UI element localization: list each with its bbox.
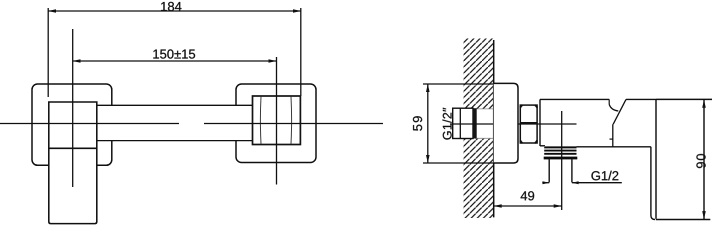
valve body top edge (right of notch): [626, 98, 656, 100]
hex nut chamfer top-left: [520, 105, 522, 108]
dimension 184 left arrow: [48, 9, 56, 13]
outlet stub left edge: [548, 159, 550, 182]
wall hatch: [463, 39, 493, 219]
cartridge dome arc: [609, 105, 618, 112]
dimension 184 text: [161, 2, 181, 11]
handle grip right edge / dimension 90 line: [703, 99, 705, 219]
dimension 49 right arrow: [554, 204, 562, 208]
dimension 59 bottom arrow: [426, 155, 430, 163]
dimension 150±15 line: [73, 60, 277, 62]
handle grip left edge: [655, 99, 657, 218]
handle grip bottom edge / 90 extension: [656, 219, 710, 221]
lever neck tick: [610, 138, 614, 140]
dimension 90 text (rotated): [696, 154, 705, 168]
handle grip second left line with foot curve: [651, 147, 655, 220]
G1/2 diameter dim left line: [542, 182, 549, 184]
extension line left of 184: [47, 8, 49, 97]
side-view centreline: [450, 123, 577, 125]
outlet thread block: [544, 146, 576, 159]
hex nut chamfer bottom-left: [520, 141, 522, 144]
horizontal centreline (left segment): [0, 123, 179, 125]
dimension 184 line: [48, 10, 301, 12]
dimension 59 top arrow: [426, 84, 430, 92]
right connector knob (thick rect): [253, 96, 301, 145]
outlet centreline: [561, 111, 563, 210]
pipe through wall top edge: [475, 108, 494, 110]
dimension 90 bottom arrow: [702, 211, 706, 219]
G1/2 diameter dim right arrow: [572, 181, 579, 184]
spout bar bottom edge: [97, 140, 253, 142]
handle front view (covers escutcheon bottom edge): [49, 102, 97, 224]
dimension 90 top arrow: [702, 100, 706, 108]
dimension 150±15 left arrow: [73, 59, 81, 63]
handle body parting line: [49, 147, 97, 149]
hex nut: [520, 105, 537, 143]
spout bar (white tube in front of escutcheon edges): [97, 105, 253, 140]
dimension 59 extension top: [423, 83, 494, 85]
valve body left edge: [539, 99, 541, 146]
left escutcheon (rounded square): [32, 84, 112, 165]
dimension 59 line: [427, 84, 429, 163]
dimension 59 text (rotated): [413, 116, 422, 131]
left fixture centreline / 150 extension: [72, 29, 74, 187]
lever neck vertical: [612, 124, 614, 147]
lever neck diagonal: [613, 99, 626, 124]
valve body bottom edge right: [577, 146, 651, 148]
right fixture centreline / 150 extension: [276, 57, 278, 185]
G1/2 text: [591, 171, 618, 181]
thread ridge 3: [544, 153, 576, 155]
pipe through wall bottom edge: [475, 137, 494, 139]
hex nut facet band: [520, 122, 537, 125]
hex nut chamfer bottom-right: [535, 141, 537, 144]
extension line right of 184: [300, 8, 302, 96]
horizontal centreline (right segment): [204, 123, 383, 125]
outlet stub right edge: [571, 159, 573, 182]
wall pipe hole (white over hatch): [474, 109, 494, 138]
dimension 184 right arrow: [293, 9, 301, 13]
thread ridge 1: [544, 146, 576, 148]
G1/2 diameter dim right line: [572, 182, 622, 184]
dimension 49 text: [521, 191, 535, 200]
G1/2 diameter dim left arrow: [543, 181, 550, 184]
valve body top edge (left of notch): [540, 98, 609, 100]
knob reflection line left: [259, 97, 262, 145]
inlet fitting body: [453, 108, 473, 138]
handle grip top edge / 90 extension: [656, 98, 712, 100]
thread base bar: [544, 157, 578, 160]
cartridge stem stub: [608, 99, 610, 104]
dimension 150±15 right arrow: [269, 59, 277, 63]
dimension 49 left arrow: [494, 204, 502, 208]
thread ridge 2: [544, 150, 576, 152]
escutcheon side view: [494, 83, 518, 163]
dimension 49 line: [494, 205, 562, 207]
dimension 59 extension bottom: [423, 162, 494, 164]
inlet fitting inner line: [459, 108, 461, 138]
hex nut chamfer top-right: [535, 105, 537, 108]
spout bar top edge: [97, 104, 253, 106]
wall surface line: [493, 40, 495, 217]
inlet fitting flange (thick dark band): [473, 108, 477, 138]
knob reflection line right: [290, 97, 293, 145]
dimension 150±15 text: [153, 49, 195, 58]
G1/2 inch label (rotated): [442, 108, 451, 140]
right escutcheon (rounded square): [236, 84, 316, 163]
valve body bottom edge left: [540, 145, 545, 147]
